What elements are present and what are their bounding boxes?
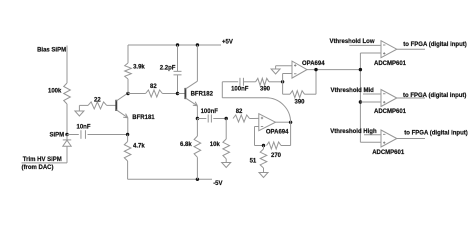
wire 10nF to emitter node bbox=[88, 134, 128, 136]
rail +5V bbox=[128, 44, 221, 46]
svg-text:10k: 10k bbox=[210, 142, 221, 148]
wire Vthreshold Low bbox=[349, 44, 381, 46]
comparator U5 ADCMP601 bbox=[381, 130, 397, 147]
rail -5V bbox=[128, 178, 212, 180]
wire bus to comp high bbox=[360, 141, 381, 143]
resistor R6 6.8k bbox=[180, 119, 201, 180]
label to FPGA mid bbox=[403, 93, 466, 99]
node U1 feedback junction bbox=[262, 144, 265, 147]
wire collector Q1 up bbox=[127, 92, 129, 94]
label ADCMP601 U5 bbox=[372, 150, 405, 156]
svg-text:Trim HV SiPM: Trim HV SiPM bbox=[23, 157, 62, 163]
capacitor C2 2.2pF bbox=[160, 45, 182, 94]
svg-text:Bias SiPM: Bias SiPM bbox=[37, 47, 66, 53]
node emitter Q1 bbox=[126, 133, 129, 136]
diode D1 SiPM bbox=[63, 135, 71, 147]
resistor R7 82 bbox=[233, 109, 259, 122]
capacitor C4 100nF bbox=[231, 78, 256, 93]
svg-text:51: 51 bbox=[250, 159, 257, 165]
resistor R12 390 feedback bbox=[283, 91, 316, 106]
resistor R3 4.7k bbox=[124, 142, 145, 162]
svg-text:2.2pF: 2.2pF bbox=[160, 66, 176, 72]
svg-text:82: 82 bbox=[236, 109, 243, 115]
svg-text:to FPGA (digital input): to FPGA (digital input) bbox=[403, 42, 466, 48]
ground under 10k bbox=[222, 163, 231, 168]
wire bus to comp low bbox=[360, 52, 381, 54]
resistor R8 10k bbox=[210, 119, 230, 163]
wire U3 output bbox=[397, 48, 425, 50]
svg-text:100nF: 100nF bbox=[201, 109, 219, 115]
svg-text:Vthreshold Low: Vthreshold Low bbox=[330, 39, 375, 45]
label OPA694 U1 bbox=[266, 130, 289, 136]
label 100k bbox=[48, 89, 62, 95]
wire Vthreshold High bbox=[364, 134, 381, 136]
node 2.2pF on rail bbox=[176, 43, 179, 46]
capacitor C1 10nF bbox=[77, 124, 91, 138]
resistor R10 270 bbox=[267, 142, 291, 159]
label Trim HV SiPM bbox=[23, 157, 62, 163]
wire to 4.7k bbox=[127, 135, 129, 142]
wire Vthreshold Mid bbox=[363, 93, 381, 95]
wire U5 output bbox=[397, 138, 425, 140]
label ADCMP601 U3 bbox=[374, 61, 407, 67]
svg-text:100nF: 100nF bbox=[231, 87, 249, 93]
label to FPGA high bbox=[404, 130, 467, 136]
resistor R4 3.9k bbox=[125, 63, 146, 79]
wire U4 output bbox=[397, 97, 425, 99]
wire U1 inv input bbox=[255, 127, 264, 146]
wire feedback to output bbox=[290, 122, 292, 145]
label -5V bbox=[213, 181, 222, 187]
comparator U3 ADCMP601 bbox=[381, 41, 397, 58]
resistor R5 82 bbox=[128, 84, 178, 97]
svg-text:(from DAC): (from DAC) bbox=[22, 165, 54, 171]
wire U1 output bbox=[276, 121, 291, 123]
node 6.8k on rail bbox=[196, 178, 199, 181]
node bus mid tap bbox=[359, 100, 362, 103]
node bus at U2 output bbox=[359, 68, 362, 71]
wire bus to comp mid bbox=[360, 101, 381, 103]
label BFR182 bbox=[191, 91, 214, 97]
node U2 output feedback bbox=[314, 68, 317, 71]
svg-text:BFR181: BFR181 bbox=[132, 115, 155, 121]
label ADCMP601 U4 bbox=[374, 109, 407, 115]
svg-text:3.9k: 3.9k bbox=[133, 64, 145, 70]
label OPA694 U2 bbox=[302, 61, 325, 67]
transistor Q1 BFR181 bbox=[116, 93, 128, 118]
node U1 output bbox=[289, 121, 292, 124]
wire 4.7k to -5V rail bbox=[127, 161, 129, 179]
svg-text:ADCMP601: ADCMP601 bbox=[374, 61, 407, 67]
wire junction to inv input bbox=[283, 74, 292, 95]
node Bias SiPM label bbox=[37, 47, 66, 53]
svg-text:390: 390 bbox=[260, 87, 271, 93]
capacitor C3 100nF bbox=[197, 109, 226, 123]
svg-text:22: 22 bbox=[94, 98, 101, 104]
svg-text:OPA694: OPA694 bbox=[266, 130, 289, 136]
wire 3.9k to +5V rail bbox=[127, 45, 129, 63]
wire interstage horizontal bbox=[222, 97, 266, 99]
svg-text:BFR182: BFR182 bbox=[191, 91, 214, 97]
svg-text:Vthreshold High: Vthreshold High bbox=[330, 129, 377, 135]
comparator U4 ADCMP601 bbox=[381, 90, 397, 107]
op-amp U1 OPA694 bbox=[259, 114, 276, 131]
svg-text:270: 270 bbox=[271, 153, 282, 159]
resistor R9 51 bbox=[250, 146, 267, 173]
svg-text:to FPGA (digital input): to FPGA (digital input) bbox=[403, 93, 466, 99]
wire 100k to SiPM node bbox=[66, 104, 68, 135]
label to FPGA low bbox=[403, 42, 466, 48]
label Vthreshold Mid bbox=[331, 88, 375, 94]
svg-text:ADCMP601: ADCMP601 bbox=[372, 150, 405, 156]
wire feedback up to output bbox=[315, 70, 317, 95]
wire interstage to cap bbox=[222, 81, 238, 83]
svg-text:Vthreshold Mid: Vthreshold Mid bbox=[331, 88, 375, 94]
node SiPM bbox=[50, 133, 69, 139]
label Vthreshold Low bbox=[330, 39, 375, 45]
wire 22 to base bbox=[107, 104, 117, 106]
svg-text:100k: 100k bbox=[48, 89, 62, 95]
label BFR181 bbox=[132, 115, 155, 121]
svg-text:6.8k: 6.8k bbox=[180, 142, 192, 148]
wire emitter Q2 down bbox=[196, 106, 198, 119]
label +5V bbox=[222, 39, 233, 45]
svg-text:-5V: -5V bbox=[213, 181, 222, 187]
op-amp U2 OPA694 bbox=[292, 61, 307, 78]
wire SiPM to C 10nF bbox=[67, 134, 79, 136]
transistor Q2 BFR182 bbox=[185, 81, 197, 106]
wire arc interstage bbox=[266, 98, 291, 123]
wire threshold bus bbox=[359, 53, 361, 142]
svg-text:+5V: +5V bbox=[222, 39, 233, 45]
node base Q2 bbox=[176, 92, 179, 95]
svg-text:10nF: 10nF bbox=[77, 124, 91, 130]
svg-text:82: 82 bbox=[150, 84, 157, 90]
wire diode to Trim bbox=[22, 146, 68, 163]
wire Bias SiPM to 100k bbox=[66, 46, 68, 84]
node emitter Q2 bbox=[196, 117, 199, 120]
svg-text:ADCMP601: ADCMP601 bbox=[374, 109, 407, 115]
label Vthreshold High bbox=[330, 129, 377, 135]
wire interstage vertical bbox=[221, 82, 223, 98]
ground under 51 bbox=[259, 173, 268, 178]
node collector Q1 bbox=[126, 92, 129, 95]
node U2 inv junction bbox=[281, 80, 284, 83]
ground at 22 resistor bbox=[75, 105, 88, 116]
svg-text:to FPGA (digital input): to FPGA (digital input) bbox=[404, 130, 467, 136]
resistor R1 100k bbox=[64, 83, 71, 104]
ground at U2 + input bbox=[271, 66, 292, 74]
wire collector Q2 to +5V bbox=[196, 45, 198, 81]
svg-text:390: 390 bbox=[295, 100, 306, 106]
node Q2 collector on rail bbox=[196, 43, 199, 46]
svg-text:SiPM: SiPM bbox=[50, 133, 65, 139]
node R7 junction bbox=[225, 117, 228, 120]
wire node to 3.9k bbox=[127, 79, 129, 94]
wire U2 output bbox=[307, 69, 360, 71]
label from DAC bbox=[22, 165, 54, 171]
svg-text:OPA694: OPA694 bbox=[302, 61, 325, 67]
resistor R11 390 bbox=[256, 78, 283, 92]
resistor R2 22 bbox=[88, 98, 107, 109]
svg-text:4.7k: 4.7k bbox=[133, 143, 145, 149]
wire emitter Q1 down bbox=[127, 118, 129, 135]
wire base Q2 bbox=[178, 93, 186, 95]
